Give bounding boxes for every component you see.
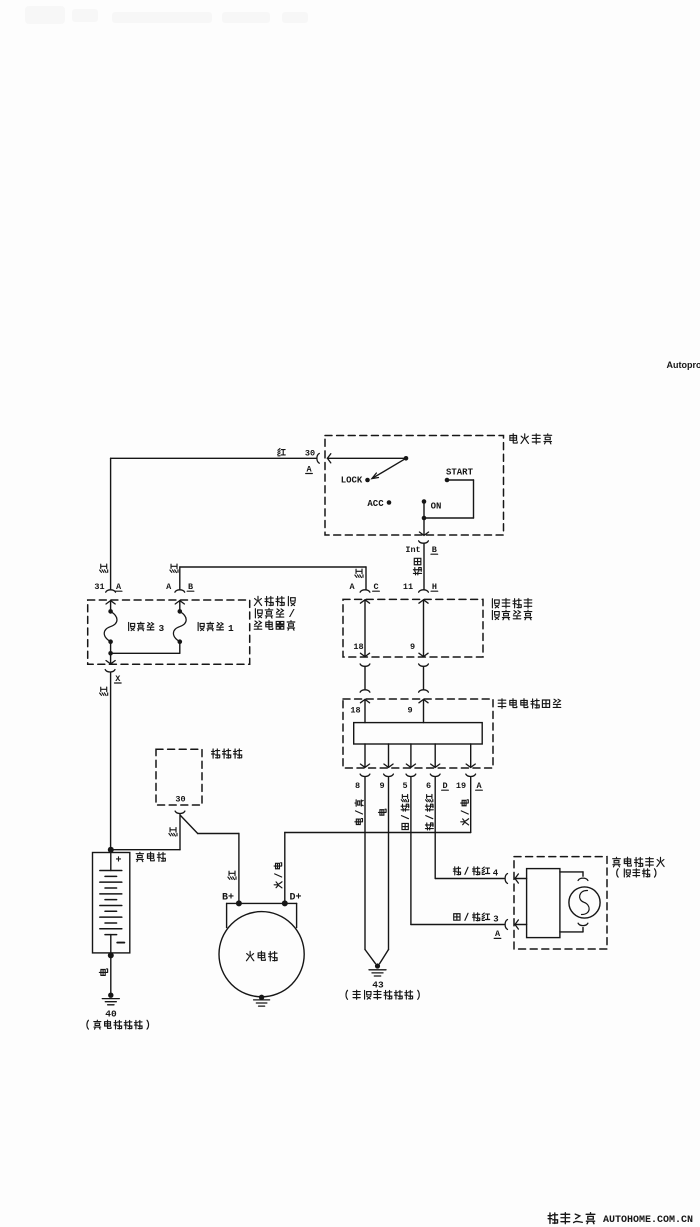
svg-text:B+: B+ bbox=[222, 892, 234, 903]
svg-text:18: 18 bbox=[353, 642, 363, 652]
svg-text:START: START bbox=[446, 468, 474, 478]
svg-text:/: / bbox=[289, 609, 296, 621]
svg-text:43: 43 bbox=[372, 980, 384, 991]
svg-text:H: H bbox=[432, 582, 437, 592]
svg-text:5: 5 bbox=[402, 781, 407, 791]
svg-text:A: A bbox=[349, 582, 355, 592]
svg-text:D: D bbox=[442, 781, 447, 791]
svg-text:9: 9 bbox=[407, 706, 412, 716]
svg-text:A: A bbox=[495, 929, 501, 939]
svg-text:1: 1 bbox=[228, 623, 234, 634]
svg-text:6: 6 bbox=[426, 781, 431, 791]
svg-text:+: + bbox=[115, 856, 121, 867]
svg-text:Autopro: Autopro bbox=[667, 360, 700, 370]
svg-text:ACC: ACC bbox=[367, 499, 384, 509]
svg-text:D+: D+ bbox=[289, 892, 301, 903]
svg-text:ON: ON bbox=[431, 502, 442, 512]
svg-text:3: 3 bbox=[159, 623, 165, 634]
svg-text:C: C bbox=[373, 582, 378, 592]
svg-text:9: 9 bbox=[410, 642, 415, 652]
svg-text:Int: Int bbox=[405, 545, 420, 555]
svg-text:A: A bbox=[306, 464, 312, 474]
svg-text:LOCK: LOCK bbox=[341, 476, 363, 486]
svg-text:4: 4 bbox=[493, 869, 499, 879]
svg-text:9: 9 bbox=[379, 781, 384, 791]
svg-text:B: B bbox=[432, 545, 437, 555]
svg-text:8: 8 bbox=[355, 781, 360, 791]
svg-text:A: A bbox=[476, 781, 482, 791]
svg-text:11: 11 bbox=[403, 582, 413, 592]
svg-text:A: A bbox=[116, 582, 122, 592]
svg-text:A: A bbox=[166, 582, 172, 592]
svg-text:30: 30 bbox=[305, 448, 315, 458]
svg-text:AUTOHOME.COM.CN: AUTOHOME.COM.CN bbox=[603, 1215, 693, 1226]
svg-text:X: X bbox=[115, 674, 121, 684]
svg-text:40: 40 bbox=[105, 1009, 117, 1020]
svg-text:B: B bbox=[188, 582, 193, 592]
svg-text:30: 30 bbox=[175, 795, 185, 805]
svg-text:31: 31 bbox=[94, 582, 104, 592]
svg-text:19: 19 bbox=[456, 781, 466, 791]
svg-text:3: 3 bbox=[493, 915, 498, 925]
svg-text:18: 18 bbox=[350, 706, 360, 716]
